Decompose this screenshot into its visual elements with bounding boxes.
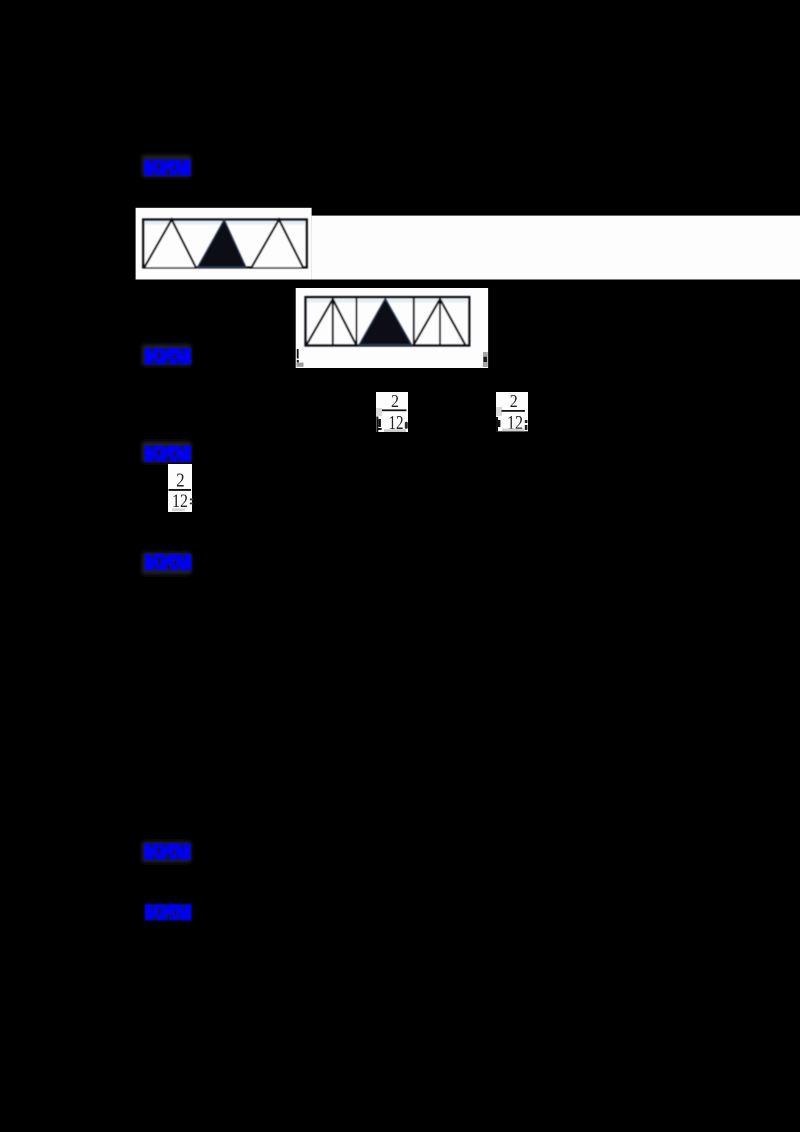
label 1 blue 【分析】 [144, 160, 191, 176]
semicolon after fraction 2 [525, 420, 528, 430]
fraction 3 bar [169, 489, 192, 491]
figure 1: outer rectangle [143, 220, 306, 268]
fraction image 1 (2/12) white box [376, 392, 408, 432]
fraction 1 bar [382, 409, 406, 411]
fraction 1 gray bottom band [384, 429, 406, 432]
halo block behind label 3 [142, 442, 191, 463]
figure 2 drawing group [306, 297, 470, 345]
label 2 blue 【解答】 [144, 348, 191, 364]
figure 1 drawing group [143, 220, 306, 268]
halo block behind label 5 [142, 842, 191, 863]
equals mark right of fraction 3 [190, 499, 193, 505]
fraction 2 gray bottom band [502, 429, 524, 432]
label 3 blue 【点评】 [144, 446, 191, 462]
fraction 2 bar [502, 410, 525, 412]
svg-text:2: 2 [510, 391, 518, 411]
text mark left of figure 2 [297, 349, 304, 367]
figure 2: middle black triangle [359, 299, 412, 345]
black text mark left of fraction 1 [376, 417, 381, 433]
figure 2: cyan tint band [307, 299, 467, 303]
long white strip image [312, 216, 800, 280]
figure 1 white image box [136, 208, 312, 280]
black text mark left of fraction 2 [496, 417, 500, 431]
figure 1: cyan tint band [145, 221, 305, 225]
figure 1: triangle left [144, 220, 195, 268]
figure 2: diagonal down right [440, 299, 465, 345]
label 4 blue 【分析】 [145, 554, 192, 570]
halo block behind label 1 [142, 155, 191, 177]
svg-text:2: 2 [391, 391, 399, 411]
fraction image 3 (2/12) white box [168, 464, 192, 512]
figure 2: vertical line at base 3 [413, 297, 415, 345]
figure 2: outer rectangle [306, 297, 470, 345]
figure 1: triangle middle (black) [198, 220, 247, 268]
comma after fraction 1 [405, 422, 408, 429]
halo block behind label 2 [142, 345, 191, 366]
label 6 blue 【点评】 [145, 904, 192, 920]
figure 2: diagonal up left [307, 299, 333, 345]
fraction image 2 (2/12) white box [496, 392, 528, 431]
figure 1: triangle right [252, 220, 303, 268]
halo block behind label 4 [142, 553, 191, 575]
figure 2 white image box [296, 288, 488, 368]
figure 2: vertical line at base 2 [356, 297, 358, 345]
figure 2: vertical line at apex 3 [439, 297, 441, 345]
svg-text:2: 2 [176, 470, 185, 492]
fraction 2 gray left edge [496, 407, 502, 416]
label 5 blue 【解答】 [144, 844, 191, 860]
figure 2: diagonal down left [333, 299, 356, 345]
figure 2: vertical line at apex 1 [332, 297, 334, 345]
figure 2: diagonal up right [414, 299, 440, 345]
comma mark right-bottom of figure 2 [483, 352, 488, 367]
fraction 3 gray bottom band [172, 508, 185, 511]
fraction 1 gray left edge [376, 408, 382, 416]
